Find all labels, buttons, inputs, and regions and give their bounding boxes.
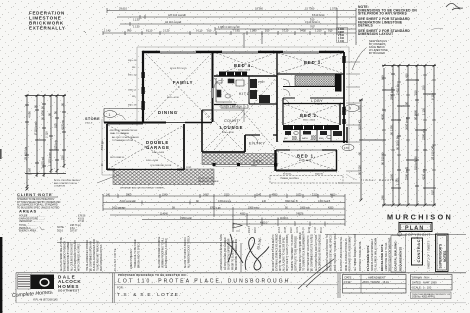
NOTE sub-block [369, 39, 388, 55]
svg-text:1360 bed B: 1360 bed B [318, 200, 331, 203]
svg-text:WITH SAFETY GLASS TO DOORS: WITH SAFETY GLASS TO DOORS [286, 234, 289, 271]
svg-text:16.08: 16.08 [285, 227, 287, 233]
svg-text:4230 o/a: 4230 o/a [422, 169, 426, 180]
svg-text:690 x 18: 690 x 18 [128, 105, 137, 107]
svg-text:46 LAYOUT AND FIXING DETAIL: 46 LAYOUT AND FIXING DETAIL [340, 236, 343, 271]
svg-text:910: 910 [207, 29, 212, 33]
bed2 robe row [283, 125, 339, 130]
svg-text:1 170 wc: 1 170 wc [41, 156, 45, 168]
bed3 robe crosshatch [295, 76, 335, 87]
svg-text:240: 240 [106, 193, 111, 196]
svg-text:90: 90 [34, 104, 38, 108]
svg-text:BE CONFIRMED ON SITE AS REQ: BE CONFIRMED ON SITE AS REQ [311, 234, 314, 271]
linen box [221, 105, 248, 109]
svg-text:9 110: 9 110 [196, 29, 203, 33]
svg-text:VERANDAH ................: VERANDAH ................ [19, 220, 44, 223]
svg-text:SITE PRIOR TO ANY WORKS: SITE PRIOR TO ANY WORKS [358, 12, 407, 16]
copyright [398, 232, 432, 237]
svg-text:ALLOW TO SUPPLY AND FIX: ALLOW TO SUPPLY AND FIX [184, 237, 187, 268]
svg-text:90: 90 [358, 151, 362, 155]
svg-text:TERMITE TREATMENT TO AS3660: TERMITE TREATMENT TO AS3660 [291, 233, 294, 271]
svg-text:ENERGY AREA ..: ENERGY AREA .. [19, 230, 38, 233]
right strip extra ticks [382, 75, 436, 170]
svg-text:ALL CEILINGS FLUSH SET: ALL CEILINGS FLUSH SET [71, 242, 74, 271]
leader line from note [352, 48, 366, 70]
svg-text:31.01: 31.01 [303, 227, 305, 233]
wall bed4/bed3 divider [276, 52, 278, 76]
svg-text:29 610 OAL: 29 610 OAL [431, 145, 435, 160]
hall door arcs [214, 79, 290, 144]
exterior wall right [343, 52, 345, 143]
client note block [17, 192, 61, 209]
svg-text:EXTERNAL SURFACE AS AGREED: EXTERNAL SURFACE AS AGREED [276, 233, 279, 271]
svg-text:29 610: 29 610 [119, 7, 127, 11]
svg-text:JOB No. 4052 APPVL: JOB No. 4052 APPVL [412, 296, 436, 299]
deck hatch band B (verandah) [202, 154, 277, 165]
svg-text:4230: 4230 [328, 206, 334, 209]
svg-text:raked: raked [251, 164, 257, 167]
svg-text:170: 170 [344, 146, 349, 150]
svg-text:BRICKLAYER NOTE: BRICKLAYER NOTE [380, 244, 384, 271]
svg-text:VERMIN PROOFING TO ALL: VERMIN PROOFING TO ALL [162, 237, 165, 268]
svg-text:EXTERNALLY: EXTERNALLY [29, 26, 66, 31]
svg-text:18 360: 18 360 [255, 7, 263, 11]
svg-text:4170mo: 4170mo [61, 119, 65, 130]
svg-text:THE ALLOWANCES SHOULD: THE ALLOWANCES SHOULD [86, 239, 89, 271]
svg-text:FRONT ELEVATION WINDOWS: FRONT ELEVATION WINDOWS [389, 237, 392, 271]
svg-text:9400: 9400 [300, 29, 306, 33]
exterior wall top [142, 52, 344, 53]
signature scribble [227, 234, 269, 270]
svg-text:DATED : MAR. 1999: DATED : MAR. 1999 [412, 280, 437, 284]
svg-text:11620.1: 11620.1 [280, 217, 289, 220]
svg-text:29 610 o/a: 29 610 o/a [24, 146, 28, 160]
bricklayer note rotated [366, 237, 392, 271]
NOTE text block top-right [358, 5, 417, 36]
svg-text:POR.: POR. [186, 167, 192, 169]
svg-text:OWNERS CONFIRMED NOTE: OWNERS CONFIRMED NOTE [219, 234, 223, 270]
svg-text:230: 230 [61, 155, 65, 160]
svg-text:90 3600 90: 90 3600 90 [41, 106, 45, 120]
svg-text:DETAILS: DETAILS [358, 24, 374, 28]
svg-text:PROPOSED RESIDENCE TO BE ERECT: PROPOSED RESIDENCE TO BE ERECTED ON:- [118, 273, 188, 277]
svg-text:COURT: COURT [224, 119, 240, 123]
svg-text:BRUSH AND TO SPEC 2: BRUSH AND TO SPEC 2 [138, 241, 141, 268]
svg-text:2280 o/a: 2280 o/a [422, 129, 426, 140]
svg-text:WITH CORNICE AS SPEC: WITH CORNICE AS SPEC [78, 243, 81, 271]
datum ellipse right lower [342, 144, 354, 150]
svg-text:NOTE: PROVIDE PAVING: NOTE: PROVIDE PAVING [54, 179, 80, 182]
title block divider cell2/tables [338, 273, 340, 298]
wall bed4 bottom [214, 75, 277, 77]
svg-text:PAVING BY OWNER: PAVING BY OWNER [198, 180, 219, 183]
svg-text:990: 990 [127, 29, 132, 33]
svg-text:NOTE: 50 SETD.: NOTE: 50 SETD. [198, 178, 215, 180]
title block top border [16, 272, 466, 274]
svg-text:5900: 5900 [126, 193, 132, 196]
title block bottom border [16, 302, 466, 304]
svg-text:1310: 1310 [312, 193, 318, 196]
bed2 side wall [282, 98, 284, 125]
svg-text:4080: 4080 [381, 113, 385, 120]
exterior wall left [142, 52, 144, 122]
svg-text:AREAS: AREAS [19, 209, 37, 214]
right dimension strip lines [359, 64, 436, 207]
meals nook lines [214, 94, 244, 122]
svg-text:5410 x 5410: 5410 x 5410 [146, 160, 159, 162]
rotated number columns under plan [249, 225, 323, 233]
ens row walls [283, 127, 347, 143]
robes bed4 [219, 72, 247, 77]
svg-text:TO ALL BRICK WALLS SHOWN: TO ALL BRICK WALLS SHOWN [375, 238, 378, 271]
plan box [399, 223, 432, 232]
bottom dimension lines [103, 194, 345, 226]
svg-text:5410 gge: 5410 gge [102, 140, 104, 150]
wall dining to garage [104, 122, 166, 124]
svg-text:4 080: 4 080 [28, 111, 32, 118]
svg-text:CONTRACT: CONTRACT [416, 236, 421, 262]
svg-text:WITH THE OWNERS ON SIGNING: WITH THE OWNERS ON SIGNING [280, 234, 282, 271]
svg-text:LIMESTONE SILLS TO ALL: LIMESTONE SILLS TO ALL [385, 242, 388, 271]
bed1 bottom dims [280, 174, 324, 180]
svg-text:910: 910 [54, 123, 58, 128]
title block left border [15, 273, 17, 303]
svg-text:1 360: 1 360 [28, 168, 32, 175]
svg-text:8 110 brwy: 8 110 brwy [34, 121, 38, 135]
svg-text:3410: 3410 [203, 193, 209, 196]
svg-text:910: 910 [265, 29, 270, 33]
svg-text:19.15: 19.15 [297, 227, 299, 233]
svg-text:BED 2.: BED 2. [300, 113, 319, 118]
garage left rotated dims [102, 140, 104, 166]
stacked dim boxes right of top strip [338, 28, 345, 43]
dale alcock text [58, 275, 81, 293]
svg-text:760: 760 [310, 24, 315, 28]
kitchen bench [216, 78, 244, 102]
svg-text:LOT 110, PROTEA PLACE, DUNSBOR: LOT 110, PROTEA PLACE, DUNSBOROUGH. [118, 279, 294, 285]
svg-text:WIND CLASSIFICATION N2 AS: WIND CLASSIFICATION N2 AS [345, 238, 348, 271]
svg-text:90: 90 [48, 112, 52, 116]
band divider line above rotated columns [57, 242, 237, 244]
svg-text:24.07: 24.07 [291, 227, 293, 233]
svg-text:ALL GLAZING TO AS1288 SPEC: ALL GLAZING TO AS1288 SPEC [283, 237, 286, 271]
svg-text:8700 c.ga: 8700 c.ga [210, 206, 221, 209]
svg-text:1 570: 1 570 [330, 7, 337, 11]
svg-text:BED 3.: BED 3. [304, 60, 323, 65]
svg-text:CERTIFICATE TO BE PROVIDED: CERTIFICATE TO BE PROVIDED [295, 236, 298, 271]
left strip rotated labels [24, 102, 65, 175]
svg-text:BED 1.: BED 1. [297, 154, 316, 159]
svg-text:302.6: 302.6 [57, 230, 64, 233]
svg-text:ROOF TRUSSES TO MANUF SPEC: ROOF TRUSSES TO MANUF SPEC [334, 233, 337, 271]
svg-text:1 140: 1 140 [104, 29, 111, 33]
svg-text:CLIENT NOTE: CLIENT NOTE [17, 192, 52, 197]
robe black right [335, 75, 342, 92]
svg-text:PLACING ALLOWANCES FOR: PLACING ALLOWANCES FOR [93, 239, 96, 271]
svg-text:7490.6: 7490.6 [296, 212, 304, 215]
svg-text:NO PAINT WORK BY BUILDER TO: NO PAINT WORK BY BUILDER TO [272, 234, 275, 271]
hall wall [276, 76, 278, 142]
svg-text:COLORBOND AS PER SCHEDULE: COLORBOND AS PER SCHEDULE [319, 234, 322, 271]
stamps band top border [325, 234, 466, 236]
svg-text:1920: 1920 [224, 193, 230, 196]
garage walls [107, 124, 184, 170]
svg-text:FOR :: FOR : [117, 285, 124, 289]
svg-text:TO CURRENT BCA REQUIREMENT: TO CURRENT BCA REQUIREMENT [303, 233, 306, 271]
svg-text:1 130: 1 130 [133, 17, 140, 21]
svg-text:1 130: 1 130 [133, 24, 140, 28]
svg-text:9: 9 [349, 107, 351, 111]
title block divider logo/cell2 [113, 273, 115, 303]
scan scribble top-right [446, 3, 463, 10]
datum ellipse 1 left of store [104, 111, 126, 120]
supervisors notes stamp rotated double box [436, 234, 449, 272]
svg-text:2.1x1.9: 2.1x1.9 [315, 104, 323, 106]
svg-text:660: 660 [381, 75, 385, 80]
svg-text:910: 910 [414, 90, 418, 95]
svg-text:2410.5: 2410.5 [249, 225, 251, 233]
svg-text:COPYRIGHT: COPYRIGHT [405, 233, 431, 237]
svg-text:PLASTERER NOTE: PLASTERER NOTE [366, 245, 370, 271]
deck hatch band A (garage front paving) [113, 169, 214, 185]
windows left wall [141, 72, 144, 110]
svg-text:DRAWN : W.H: DRAWN : W.H [412, 275, 429, 279]
svg-text:90 2110: 90 2110 [358, 165, 362, 175]
svg-text:15840 o/all: 15840 o/all [180, 217, 192, 220]
store niche [104, 109, 143, 123]
svg-text:4570 x 4110: 4570 x 4110 [167, 97, 180, 99]
svg-text:1 310: 1 310 [315, 29, 322, 33]
svg-text:4.5.99: 4.5.99 [344, 281, 352, 284]
svg-text:90 2980: 90 2980 [414, 109, 418, 120]
svg-text:LOCATION: LOCATION [54, 185, 65, 188]
svg-text:690 x 18: 690 x 18 [128, 60, 137, 62]
svg-text:187.97: 187.97 [70, 230, 78, 233]
bed2 top wall [283, 103, 344, 105]
plan-to-strip connector ticks right [338, 62, 360, 183]
svg-text:27.16: 27.16 [78, 220, 85, 223]
svg-text:3600 balc B: 3600 balc B [285, 200, 298, 203]
svg-text:2 110: 2 110 [45, 131, 49, 138]
svg-text:4110 x 3600: 4110 x 3600 [299, 160, 312, 162]
svg-text:17.93: 17.93 [315, 227, 317, 233]
svg-text:3010 x 3000: 3010 x 3000 [238, 70, 251, 72]
amendment table [343, 275, 407, 294]
garage front dims small [116, 167, 192, 177]
svg-text:SMOKE DETECTORS HARD WIRED: SMOKE DETECTORS HARD WIRED [299, 232, 302, 271]
svg-text:ALL DOWN PIPES AND GUTTERS: ALL DOWN PIPES AND GUTTERS [315, 234, 318, 271]
svg-text:8 110 brick: 8 110 brick [312, 13, 325, 17]
laundry fixtures [250, 79, 270, 103]
svg-text:STORE: STORE [85, 117, 100, 121]
svg-text:690 x 10: 690 x 10 [128, 75, 137, 77]
coastal building requirements rotated [394, 241, 403, 271]
svg-text:1 130: 1 130 [422, 108, 426, 115]
job number box [411, 292, 452, 299]
verandah posts [213, 163, 278, 166]
svg-text:2280 bed1: 2280 bed1 [405, 166, 409, 180]
svg-text:DIMENSION LAYOUT: DIMENSION LAYOUT [358, 32, 393, 36]
svg-text:TO GARAGE FLOOR: TO GARAGE FLOOR [112, 139, 134, 142]
verandah lower edge lines [213, 165, 277, 167]
svg-text:114040: 114040 [160, 212, 168, 215]
svg-text:CLIENT NOTE: CLIENT NOTE [113, 248, 117, 271]
svg-text:ALL WINDOW LOCKS TO BCA: ALL WINDOW LOCKS TO BCA [188, 235, 191, 268]
rotated text columns band (left of centre) [60, 234, 238, 271]
svg-text:AND STEP AT PORCH: AND STEP AT PORCH [54, 182, 77, 185]
svg-text:BY BUILDER: BY BUILDER [369, 51, 385, 55]
svg-text:ADD'L TRANSF - 18.10: ADD'L TRANSF - 18.10 [363, 281, 390, 284]
svg-text:LOBY: LOBY [311, 99, 323, 103]
svg-text:SCALE : 1 : 100: SCALE : 1 : 100 [412, 285, 432, 289]
svg-text:2 110: 2 110 [163, 29, 170, 33]
svg-text:ALLOW FOR DAMP COURSE: ALLOW FOR DAMP COURSE [158, 236, 161, 268]
svg-text:3010 x 3600: 3010 x 3600 [303, 120, 316, 122]
svg-text:C: C [398, 232, 400, 236]
svg-text:3600 90: 3600 90 [315, 174, 324, 176]
top dimension labels [104, 7, 337, 33]
svg-text:90: 90 [405, 101, 409, 105]
svg-text:4110 x 4010: 4110 x 4010 [222, 132, 235, 134]
eaves outline (light) [102, 47, 349, 175]
bed1 walls [276, 150, 338, 171]
svg-text:HOMES: HOMES [58, 284, 79, 289]
svg-text:1 970: 1 970 [358, 105, 362, 112]
svg-text:2 410 ldy: 2 410 ldy [396, 83, 400, 95]
svg-text:5410 garage: 5410 garage [112, 206, 126, 209]
svg-text:MURCHISON: MURCHISON [387, 213, 453, 222]
svg-text:90 3010: 90 3010 [283, 174, 292, 176]
svg-text:8 110: 8 110 [146, 29, 153, 33]
svg-text:1 980 4 110 mo 90: 1 980 4 110 mo 90 [218, 25, 240, 29]
svg-text:TOWEL RAIL TO BE FIXED: TOWEL RAIL TO BE FIXED [134, 239, 137, 268]
svg-text:FOR PAINTING BY OWNER: FOR PAINTING BY OWNER [67, 241, 70, 271]
vanity ellipses ens [294, 132, 331, 139]
FEDERATION text block [29, 11, 86, 34]
signature flourish over title [298, 259, 334, 289]
svg-text:SEAL TO GARAGE: SEAL TO GARAGE [110, 132, 130, 135]
svg-text:910: 910 [431, 190, 435, 195]
areas block [19, 209, 86, 233]
rotated columns right band [326, 233, 362, 271]
svg-text:360 HCL: 360 HCL [358, 119, 362, 130]
svg-text:T.S. & S.E. LOTZE.: T.S. & S.E. LOTZE. [117, 292, 182, 298]
svg-text:2980 brwy: 2980 brwy [390, 86, 394, 100]
svg-text:1 980: 1 980 [250, 29, 257, 33]
svg-text:90: 90 [61, 102, 65, 106]
svg-text:A/C 110 overall: A/C 110 overall [168, 13, 186, 17]
ens fixtures [285, 131, 342, 140]
svg-text:910: 910 [310, 17, 315, 21]
hall/lobby walls [283, 87, 344, 99]
svg-text:1660 vds: 1660 vds [300, 206, 311, 209]
scan edge bar bottom-left [0, 237, 2, 313]
svg-text:1540: 1540 [162, 193, 168, 196]
svg-text:140: 140 [262, 200, 267, 203]
svg-text:SIGN POSTS AND FOOTINGS TO: SIGN POSTS AND FOOTINGS TO [326, 235, 329, 271]
svg-text:4060.3: 4060.3 [260, 221, 268, 224]
svg-text:90 1360: 90 1360 [390, 124, 394, 135]
svg-text:1310: 1310 [296, 193, 302, 196]
svg-text:A.PL 44 (97) 268 245: A.PL 44 (97) 268 245 [33, 298, 58, 302]
svg-text:22.44: 22.44 [309, 227, 311, 233]
svg-text:ON SITE WITH SUPERVISOR: ON SITE WITH SUPERVISOR [229, 238, 231, 270]
timber deck dashed outline below bed1 [270, 176, 343, 184]
svg-text:LOUNGE: LOUNGE [220, 125, 243, 130]
roof dashed diagonals family/dining [108, 53, 343, 170]
svg-text:DATE: DATE [345, 275, 352, 279]
svg-text:4090: 4090 [240, 212, 246, 215]
svg-text:4810: 4810 [330, 193, 336, 196]
svg-text:SHEET 2 OF 7 SHEETS: SHEET 2 OF 7 SHEETS [427, 240, 431, 269]
svg-text:ROOF PITCH 25: ROOF PITCH 25 [170, 68, 187, 70]
top dimension lines [103, 8, 356, 48]
svg-text:3600 brwy: 3600 brwy [405, 116, 409, 130]
svg-text:430: 430 [405, 73, 409, 78]
svg-text:ENTRY: ENTRY [249, 142, 266, 146]
svg-text:FOOTINGS TO ENG DETAIL: FOOTINGS TO ENG DETAIL [359, 240, 362, 271]
svg-text:4150 lounge: 4150 lounge [218, 200, 232, 203]
svg-text:PROVIDE VERMIN PROOF: PROVIDE VERMIN PROOF [110, 130, 138, 132]
rotated columns centre (tall) [272, 232, 322, 271]
svg-text:SETDOWN 50: SETDOWN 50 [110, 157, 125, 159]
pennant symbol [233, 223, 242, 232]
svg-text:TILING AND WET AREAS AS: TILING AND WET AREAS AS [97, 240, 100, 271]
right strip rotated labels [358, 73, 435, 200]
svg-text:760: 760 [422, 85, 426, 90]
cell divider [114, 284, 338, 286]
svg-text:ALL PLASTERED WALLS TO BE: ALL PLASTERED WALLS TO BE [60, 236, 63, 271]
svg-text:PLAN: PLAN [405, 226, 424, 232]
svg-text:PER SCHEDULE NOTES: PER SCHEDULE NOTES [101, 244, 103, 271]
svg-text:HOT WATER UNIT LOCATION TO: HOT WATER UNIT LOCATION TO [307, 235, 310, 271]
svg-text:LDRY: LDRY [252, 90, 259, 93]
dale alcock logo [18, 275, 55, 290]
svg-text:90 3010 90: 90 3010 90 [396, 136, 400, 150]
svg-text:240: 240 [381, 195, 385, 200]
svg-text:LINEN 4 SHELVES: LINEN 4 SHELVES [131, 249, 133, 269]
svg-text:DRIVEWAY AND CROSSOVER BY OWNE: DRIVEWAY AND CROSSOVER BY OWNER [120, 187, 164, 190]
bed2 right wall [339, 103, 341, 125]
svg-text:ALLOW 2 COATS SEALER: ALLOW 2 COATS SEALER [112, 136, 139, 139]
svg-text:EXTERNAL WALLS AS REQ: EXTERNAL WALLS AS REQ [165, 238, 168, 268]
svg-text:1960 entry: 1960 entry [248, 206, 260, 209]
svg-text:90.14: 90.14 [279, 227, 281, 233]
svg-text:1 170 brwy: 1 170 brwy [48, 152, 52, 166]
svg-text:AMENDMENT: AMENDMENT [368, 275, 386, 279]
verandah note left with leader [54, 179, 80, 188]
svg-text:WC: WC [284, 138, 288, 140]
svg-text:VER.: VER. [253, 160, 264, 164]
bottom dimension labels [106, 193, 336, 224]
svg-text:2.3x1.9: 2.3x1.9 [85, 122, 93, 124]
svg-text:DINING: DINING [158, 110, 178, 115]
svg-text:BATH: BATH [302, 137, 308, 140]
svg-text:1: 1 [109, 113, 111, 117]
svg-text:5410 x 5410: 5410 x 5410 [152, 152, 165, 154]
svg-text:28.16: 28.16 [321, 227, 323, 233]
svg-text:REQUIREMENTS: REQUIREMENTS [399, 247, 403, 271]
bed3 bottom wall [277, 73, 344, 75]
svg-text:BE CONFIRMED UPON ANY: BE CONFIRMED UPON ANY [90, 240, 93, 271]
datum ellipse B right [342, 104, 359, 112]
svg-text:FINISHED SMOOTH READY: FINISHED SMOOTH READY [64, 241, 67, 271]
svg-text:302.6: 302.6 [255, 227, 257, 233]
svg-text:PER AS4055 SITE ASSESSMENT: PER AS4055 SITE ASSESSMENT [349, 235, 352, 271]
lounge walls [202, 110, 245, 152]
svg-text:LINEN 1.8M HIGH: LINEN 1.8M HIGH [222, 105, 242, 108]
svg-text:NOTES: NOTES [443, 250, 447, 262]
